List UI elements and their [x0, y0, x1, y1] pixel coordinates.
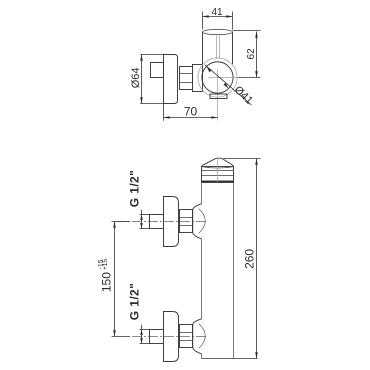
outlet stub below circle: [210, 94, 227, 99]
svg-text:-15: -15: [97, 259, 104, 269]
connection nut: [180, 67, 193, 90]
extension line to 62 dimension: [238, 77, 261, 79]
top cap dome: [202, 158, 234, 168]
escutcheon flange (Ø64) side view: [164, 55, 178, 104]
svg-text:260: 260: [242, 249, 256, 269]
dimension 41 line: [203, 12, 233, 30]
handle cylinder: [203, 29, 233, 64]
dimension 150 with tolerance: [97, 222, 130, 337]
lower inlet escutcheon: [164, 312, 179, 362]
upper inlet boss on body: [193, 204, 206, 239]
body bottom edge: [202, 358, 258, 360]
valve body circle Ø41: [202, 62, 233, 93]
upper inlet center line: [116, 221, 207, 223]
dimension 62: [233, 31, 261, 78]
lower inlet pipe thread: [150, 330, 164, 344]
lower inlet boss on body: [193, 319, 206, 354]
cap band: [202, 167, 234, 183]
svg-text:70: 70: [184, 104, 198, 118]
upper inlet escutcheon: [164, 197, 179, 247]
cylinder center stem lines: [217, 35, 220, 59]
svg-text:G 1/2": G 1/2": [128, 170, 142, 207]
svg-text:62: 62: [246, 48, 257, 60]
dimension Ø41 diagonal: [205, 65, 255, 107]
svg-text:Ø64: Ø64: [130, 68, 142, 89]
wall bracket rectangle: [151, 63, 164, 78]
body vertical edges: [202, 183, 234, 359]
circle center lines: [208, 69, 238, 121]
upper inlet nut: [180, 210, 193, 233]
svg-text:150: 150: [99, 272, 113, 292]
svg-text:G 1/2": G 1/2": [128, 283, 142, 320]
dimension 70: [164, 104, 218, 121]
upper inlet pipe thread: [150, 215, 164, 229]
lower inlet nut: [180, 325, 193, 348]
lower inlet center line: [116, 336, 207, 338]
body collar rectangle: [193, 65, 203, 92]
cap center line: [217, 159, 219, 182]
dimension G 1/2 lower: [128, 283, 150, 344]
dimension 41 text: [211, 7, 223, 18]
dimension Ø64: [130, 55, 164, 104]
dimension 260: [224, 159, 261, 359]
dimension G 1/2 upper: [128, 170, 150, 229]
back flange circle (gray): [198, 58, 237, 97]
